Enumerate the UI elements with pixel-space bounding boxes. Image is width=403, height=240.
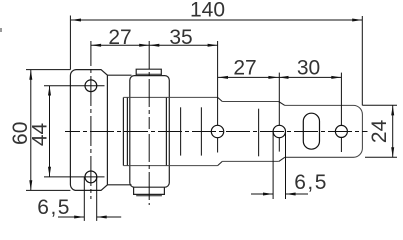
ext 140 left: [69, 16, 71, 70]
plate holes vertical centerline / ext for 27: [90, 41, 92, 199]
barrel pin top cap: [136, 69, 161, 75]
6,5 left arrows: [74, 216, 84, 219]
plate hole top: [85, 80, 97, 92]
140 arrows: [71, 19, 81, 22]
dim line 60: [30, 70, 32, 190]
arm top step 1: [218, 97, 223, 101]
curl top edge: [107, 74, 131, 76]
35 arrows: [149, 44, 159, 47]
dim line 27 top / 35: [91, 44, 218, 46]
extension lines: [26, 16, 397, 221]
arm top edge section C + rounded right end: [285, 105, 363, 157]
stray mark top-left edge: [0, 28, 2, 32]
ext 6,5 left pair: [83, 177, 85, 221]
arm hole 3: [335, 125, 347, 137]
arm top edge section B: [222, 101, 278, 103]
svg-text:27: 27: [233, 57, 256, 80]
svg-text:6,5: 6,5: [37, 196, 71, 219]
dim line 24: [392, 106, 394, 158]
dim line 140: [71, 19, 362, 21]
barrel vertical centerline / ext for 27-35: [148, 41, 150, 205]
center lines: [44, 41, 368, 205]
svg-text:140: 140: [190, 0, 225, 22]
6,5 right arrows: [263, 193, 273, 196]
30 arrows: [279, 76, 289, 79]
svg-text:27: 27: [108, 26, 131, 49]
ext hole2 vertical: [278, 73, 280, 126]
plate hole top horizontal centerline / ext for 44: [44, 85, 105, 87]
arm bottom edge section A: [123, 165, 217, 167]
svg-text:6,5: 6,5: [294, 171, 328, 194]
arrowheads: [29, 19, 394, 219]
ext 6,5 right pair: [272, 132, 274, 199]
dim leader 6,5 right: [251, 193, 273, 195]
ext 140 right: [361, 16, 363, 105]
arm bottom step 2: [279, 157, 285, 161]
27 right arrows: [218, 76, 228, 79]
knuckle left edge pair: [122, 97, 124, 165]
curl bottom edge: [107, 184, 131, 186]
arm bottom edge section B: [222, 160, 278, 162]
arm top step 2: [279, 102, 285, 106]
ext hole1 vertical: [217, 41, 219, 125]
ext 60 top: [26, 69, 70, 71]
60 arrows: [29, 70, 32, 80]
ext 24 bottom: [365, 156, 397, 158]
dimension lines: [31, 20, 393, 217]
barrel body: [130, 76, 170, 188]
27 top arrows: [91, 44, 101, 47]
ext 24 top: [362, 104, 397, 106]
main horizontal centerline: [65, 131, 368, 133]
svg-text:30: 30: [297, 57, 320, 80]
dim leader 6,5 left: [58, 216, 84, 218]
ext hole3 vertical: [340, 73, 342, 126]
hinge arm outline: [123, 97, 362, 165]
arm bottom step 1: [218, 161, 223, 165]
pin top cap bottom edge: [136, 73, 161, 75]
bend tangent lines on arm: [181, 107, 259, 156]
plate hole bottom horizontal centerline / ext for 44: [44, 176, 105, 178]
24 arrows: [391, 105, 394, 115]
slot (obround): [303, 113, 319, 149]
barrel pin bottom cap: [134, 187, 165, 194]
arm top edge section A: [123, 96, 217, 98]
holes: [85, 80, 347, 183]
plate hole bottom: [85, 171, 97, 183]
dim line 44: [49, 86, 51, 177]
dim line 27 right / 30: [218, 76, 341, 78]
arm hole 2: [273, 125, 285, 137]
svg-text:44: 44: [28, 123, 51, 147]
knuckle right edge: [165, 97, 167, 165]
svg-text:24: 24: [368, 119, 391, 143]
svg-text:35: 35: [169, 26, 192, 49]
ext 60 bottom: [26, 189, 70, 191]
left plate outline: [70, 70, 107, 191]
arm hole 1: [211, 125, 223, 137]
44 arrows: [48, 86, 51, 96]
pin bottom cap lower edge: [136, 195, 162, 197]
